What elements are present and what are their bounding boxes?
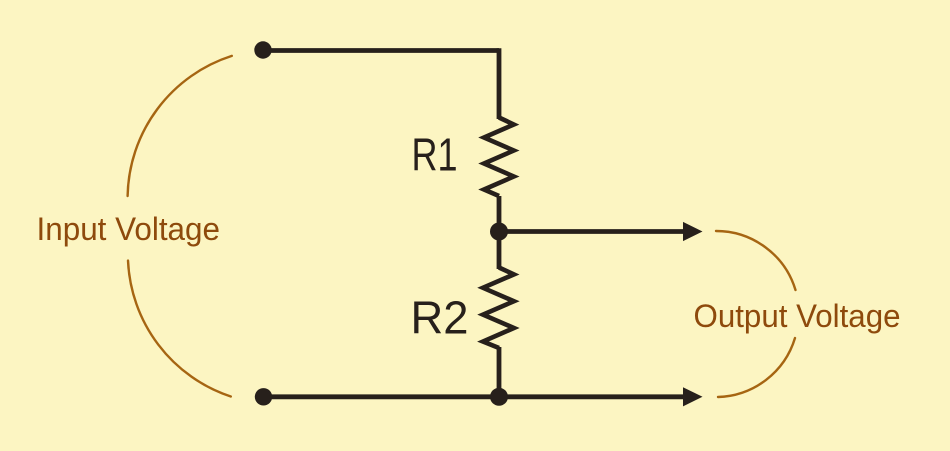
wire: bottom horizontal from input node to junction [263, 394, 499, 399]
wire: R2 bottom to bottom junction [497, 347, 502, 397]
label R1 [412, 129, 458, 181]
arrowhead: output top [683, 222, 703, 241]
brace: input voltage lower arc [128, 261, 231, 397]
svg-text:R2: R2 [411, 292, 469, 344]
brace: input voltage upper arc [128, 56, 232, 196]
wire: junction down to R2 [497, 232, 502, 270]
node: input bottom terminal [255, 388, 272, 405]
brace: output voltage upper arc [716, 231, 796, 290]
arrowhead: output bottom [683, 387, 703, 406]
wire: R1 bottom to middle junction [497, 196, 502, 232]
wire: middle output tap horizontal [499, 229, 685, 234]
resistor R2 [483, 268, 514, 349]
node: bottom junction [490, 388, 508, 406]
svg-text:R1: R1 [412, 129, 458, 181]
node: middle junction [490, 223, 508, 241]
wire: vertical from corner down to R1 [497, 48, 502, 119]
label: Input Voltage [37, 211, 221, 247]
brace: output voltage lower arc [718, 338, 795, 397]
wire: bottom output horizontal [499, 394, 685, 399]
svg-text:Input Voltage: Input Voltage [37, 211, 221, 247]
svg-text:Output Voltage: Output Voltage [694, 298, 901, 334]
wire: top horizontal from input node to corner [263, 48, 499, 53]
label: Output Voltage [694, 298, 901, 334]
node: input top terminal [254, 41, 271, 58]
label R2 [411, 292, 469, 344]
resistor R1 [484, 118, 514, 197]
